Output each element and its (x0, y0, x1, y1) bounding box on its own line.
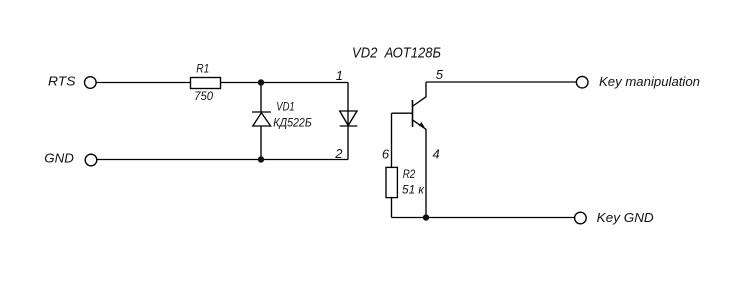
svg-text:2: 2 (334, 146, 343, 161)
svg-text:VD2 АОТ128Б: VD2 АОТ128Б (352, 45, 441, 62)
svg-text:GND: GND (44, 151, 74, 166)
svg-text:51 к: 51 к (402, 183, 425, 197)
svg-text:1: 1 (336, 68, 343, 83)
svg-text:RTS: RTS (48, 74, 76, 89)
svg-text:5: 5 (436, 67, 444, 82)
svg-text:750: 750 (194, 89, 213, 103)
svg-text:VD1: VD1 (276, 100, 294, 114)
svg-text:Key manipulation: Key manipulation (599, 74, 700, 89)
svg-text:R2: R2 (403, 167, 416, 181)
svg-text:R1: R1 (196, 62, 209, 76)
svg-text:4: 4 (433, 146, 440, 161)
svg-text:6: 6 (382, 146, 390, 161)
svg-text:Key GND: Key GND (597, 210, 654, 225)
svg-text:КД522Б: КД522Б (273, 118, 312, 130)
